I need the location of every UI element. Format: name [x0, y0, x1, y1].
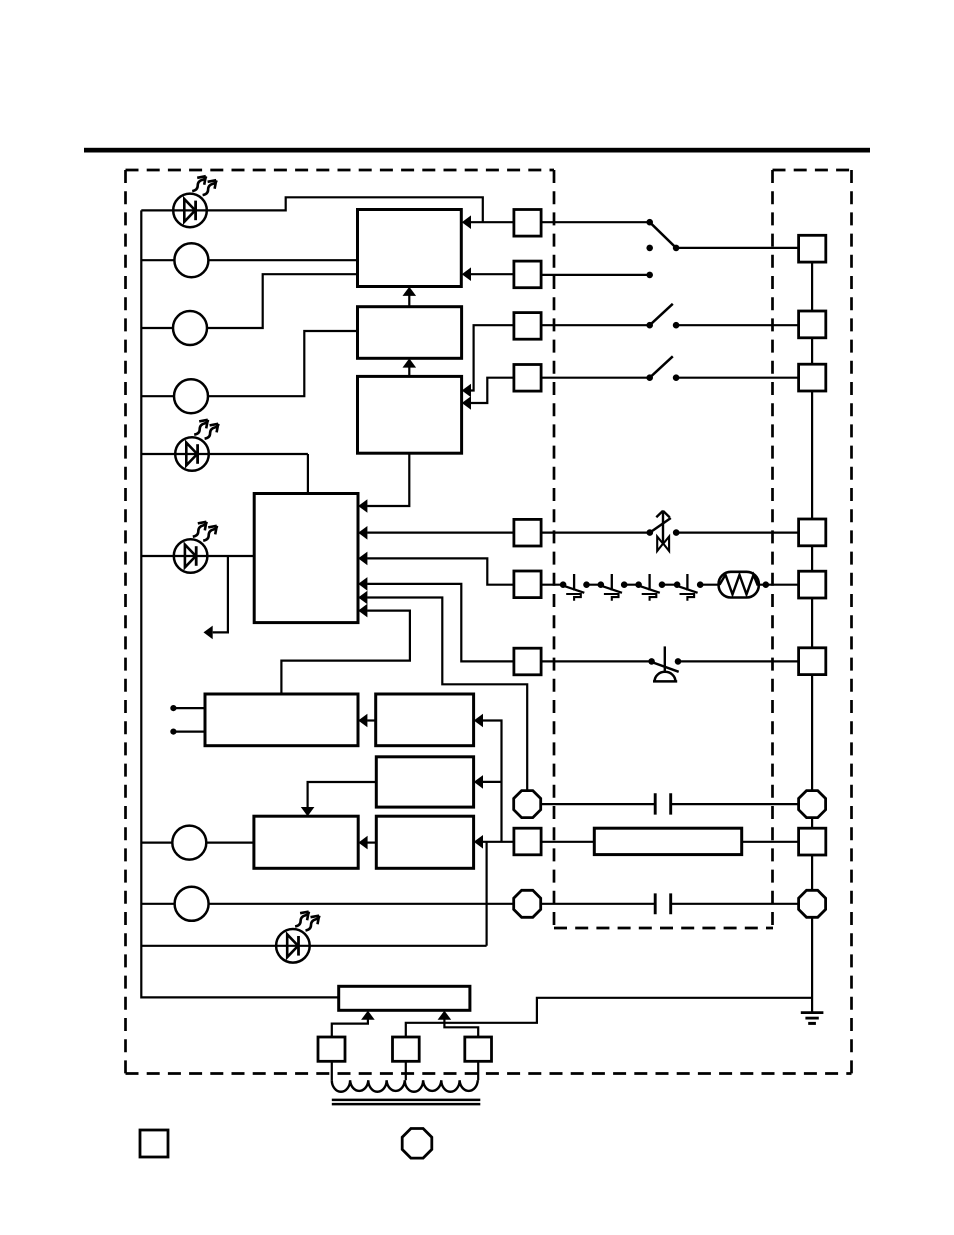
connector J1-6: [514, 571, 541, 598]
pin P4: [799, 519, 826, 546]
wire: transformer common to ground run: [406, 998, 812, 1037]
connector J1-4: [514, 365, 541, 392]
connector P8 round pin: [514, 791, 541, 818]
wire: R1 to pin P5: [763, 581, 770, 588]
wire: U7 output down into U9: [308, 782, 377, 807]
switch SW1: [646, 219, 653, 226]
block U9: [254, 816, 358, 868]
wire: U6 into U5: [367, 719, 376, 721]
dashed partition: inner-left column: [553, 170, 556, 928]
header rule: [84, 148, 870, 153]
block PS1 power unit: [339, 986, 470, 1010]
pin P6: [799, 648, 826, 675]
wire: SW4 to pin P4: [676, 531, 798, 533]
transformer terminal TB1: [318, 1037, 345, 1061]
switch SW4 with actuator arrow and seal: [647, 529, 654, 536]
wire: SW1 to pin P1: [676, 247, 799, 249]
block U3: [358, 376, 462, 453]
wire: J1-2 spare row: [541, 274, 650, 276]
transformer terminal TB2: [393, 1037, 420, 1061]
connector J1-8: [514, 828, 541, 855]
wire: J1-1 to switch SW1: [541, 221, 650, 223]
wire: lamp L3 to U2: [141, 331, 357, 396]
switch SW3: [646, 374, 653, 381]
wire: switch SW2 row to pin P2: [541, 324, 799, 326]
legend: square pin symbol: [140, 1130, 168, 1157]
block U1: [358, 210, 462, 287]
wire: transformer terminal TB3 into power unit: [444, 1019, 478, 1036]
capacitor C2: [655, 893, 671, 914]
block U6: [376, 694, 474, 746]
wire: lamp L4 to U9: [141, 841, 254, 843]
wire: pin P8 into U4: [367, 598, 527, 791]
wire: LED D3 row to U4: [141, 555, 254, 557]
dashed enclosure: bottom edge: [126, 1072, 852, 1075]
dashed enclosure: top-right segment: [773, 169, 852, 172]
connector J1-5: [514, 519, 541, 546]
lamp L5: [175, 887, 209, 921]
wire: J1-6 into U4: [367, 558, 514, 584]
dashed enclosure: left edge: [124, 170, 127, 1074]
lamp L4: [172, 826, 206, 860]
block U5: [205, 694, 358, 746]
legend: round pin symbol: [402, 1129, 432, 1159]
pin P11 round: [799, 890, 826, 917]
pin P10 round: [799, 791, 826, 818]
wire: transformer taps: [332, 1061, 478, 1080]
wire: capacitor C2 row: [541, 903, 799, 905]
LED D3: [174, 539, 208, 573]
arrow: U3 output into U2: [408, 367, 410, 377]
LED D2: [175, 437, 209, 471]
block U7: [376, 757, 473, 807]
pin P3: [799, 364, 826, 391]
wire: output branch with left arrow: [213, 556, 228, 632]
transformer TR1 core: [332, 1100, 481, 1104]
wire: U8 into U9: [367, 841, 376, 843]
lamp L3: [174, 379, 208, 413]
wire: J1-2 into U1: [470, 273, 514, 275]
pin P7: [799, 828, 826, 855]
wire: J1-4 into U3: [470, 378, 514, 403]
block U2: [358, 307, 462, 359]
wire: riser feeding U6 and U7: [483, 721, 502, 842]
wire: U5 input stubs: [173, 708, 205, 732]
pin P2: [799, 311, 826, 338]
capacitor C1: [655, 793, 671, 814]
wire: right connector column vertical: [811, 262, 813, 1012]
connector J1-3: [514, 313, 541, 340]
push button PB4: [674, 581, 681, 588]
connector J1-1: [514, 210, 541, 237]
wire: U5 to U4: [281, 611, 410, 694]
wire: riser from LED D4 row: [486, 842, 488, 946]
wire: J1-5 into U4: [367, 531, 514, 533]
wire: branch into U7: [483, 781, 502, 783]
lamp L2: [173, 311, 207, 345]
wire: J1-8 row into U8 with risers: [483, 841, 514, 843]
push button PB3: [635, 581, 642, 588]
wire: junction to connector J1-1 and into U1: [470, 221, 514, 223]
switch SW2: [646, 322, 653, 329]
wire: resistance element R2 row: [540, 841, 799, 843]
wire: capacitor C1 row: [541, 803, 799, 805]
wire: LED D4 row: [141, 945, 486, 947]
transformer terminal TB3: [465, 1037, 492, 1061]
wire: SW5 to pin P6: [678, 660, 799, 662]
connector P9 round pin: [514, 890, 541, 917]
pin P5: [799, 571, 826, 598]
connector J1-2: [514, 261, 541, 288]
dashed partition: inner-right column: [771, 170, 774, 928]
wire: J1-7 into U4: [367, 584, 515, 662]
wire: J1-3 into U3: [470, 325, 514, 390]
wire: J1-7 to switch SW5: [541, 660, 652, 662]
pin P1: [799, 235, 826, 262]
wire: LED D2 to top of U4: [141, 454, 308, 494]
wire: LED D1 row with loop over block U1: [141, 197, 483, 222]
LED D1: [173, 194, 207, 228]
wire: J1-5 to switch SW4: [541, 531, 650, 533]
wire: U3 output down into U4: [367, 453, 409, 506]
arrow: U2 output into U1: [408, 295, 410, 307]
lamp L1: [174, 243, 208, 277]
transformer TR1 secondary winding: [332, 1080, 478, 1092]
dashed enclosure: main unit boundary left/top: [126, 169, 555, 172]
block U8: [376, 816, 473, 868]
wire: left supply bus: [141, 210, 338, 997]
LED D4: [276, 929, 310, 963]
switch SW5 push button with horn: [648, 658, 655, 665]
dashed partition: middle column bottom: [554, 927, 773, 930]
ground: [801, 1011, 824, 1014]
dashed enclosure: right edge: [850, 170, 853, 1074]
wire: lamp L2 to U1 lower input: [141, 274, 357, 328]
resistor R1 heating element: [719, 572, 759, 598]
wire: transformer terminal TB1 into power unit: [332, 1019, 368, 1036]
block U4: [254, 494, 358, 623]
wire: keypad chain row: [541, 584, 719, 586]
wire: switch SW3 row to pin P3: [541, 377, 799, 379]
push button PB1: [560, 581, 567, 588]
push button PB2: [598, 581, 605, 588]
wire: lamp L1 to U1: [141, 259, 357, 261]
connector J1-7: [514, 648, 541, 675]
wire: lamp L5 to pin P9: [141, 903, 514, 905]
resistance element R2: [594, 828, 741, 854]
switch SW1 spare contact: [646, 272, 653, 279]
